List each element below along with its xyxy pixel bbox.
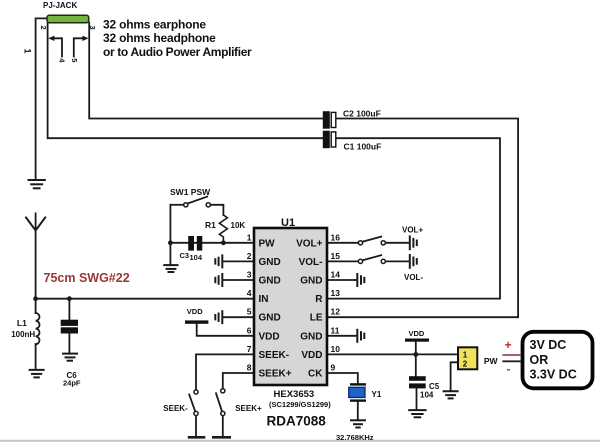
svg-text:PW: PW bbox=[484, 356, 499, 366]
svg-text:11: 11 bbox=[331, 325, 340, 335]
svg-text:VOL-: VOL- bbox=[404, 273, 423, 282]
svg-text:75cm SWG#22: 75cm SWG#22 bbox=[44, 271, 130, 285]
svg-text:24pF: 24pF bbox=[63, 379, 81, 388]
svg-text:1: 1 bbox=[23, 49, 33, 54]
svg-text:R: R bbox=[315, 294, 323, 305]
svg-text:VOL+: VOL+ bbox=[402, 225, 423, 234]
svg-text:32 ohms headphone: 32 ohms headphone bbox=[103, 31, 216, 45]
svg-text:GND: GND bbox=[259, 276, 281, 287]
svg-text:C3: C3 bbox=[180, 251, 190, 260]
svg-text:CK: CK bbox=[308, 369, 323, 380]
svg-text:L1: L1 bbox=[17, 318, 27, 328]
svg-text:13: 13 bbox=[331, 288, 341, 298]
svg-text:1: 1 bbox=[463, 350, 468, 359]
svg-text:1: 1 bbox=[247, 232, 252, 242]
svg-text:104: 104 bbox=[190, 253, 203, 262]
svg-text:2: 2 bbox=[247, 251, 252, 261]
svg-text:GND: GND bbox=[300, 276, 322, 287]
svg-text:IN: IN bbox=[259, 294, 269, 305]
svg-text:9: 9 bbox=[331, 363, 336, 373]
svg-text:-: - bbox=[507, 362, 511, 376]
svg-text:8: 8 bbox=[247, 363, 252, 373]
svg-text:10K: 10K bbox=[231, 221, 246, 230]
svg-text:SEEK+: SEEK+ bbox=[235, 404, 262, 413]
svg-text:104: 104 bbox=[420, 391, 434, 400]
svg-text:6: 6 bbox=[247, 325, 252, 335]
svg-text:32.768KHz: 32.768KHz bbox=[336, 433, 374, 442]
svg-text:10: 10 bbox=[331, 344, 341, 354]
svg-text:SEEK-: SEEK- bbox=[163, 404, 188, 413]
svg-text:7: 7 bbox=[247, 344, 252, 354]
svg-text:5: 5 bbox=[70, 58, 79, 62]
svg-text:VOL+: VOL+ bbox=[296, 238, 323, 249]
svg-text:VDD: VDD bbox=[259, 331, 280, 342]
svg-text:GND: GND bbox=[259, 313, 281, 324]
svg-text:VDD: VDD bbox=[187, 307, 203, 316]
svg-text:32 ohms earphone: 32 ohms earphone bbox=[103, 17, 206, 31]
svg-text:PW: PW bbox=[259, 238, 276, 249]
svg-text:HEX3653: HEX3653 bbox=[274, 389, 315, 400]
svg-text:+: + bbox=[505, 338, 512, 352]
svg-text:3V DC: 3V DC bbox=[530, 338, 567, 352]
svg-text:5: 5 bbox=[247, 307, 252, 317]
svg-text:SEEK+: SEEK+ bbox=[259, 369, 292, 380]
svg-text:C5: C5 bbox=[429, 382, 440, 391]
svg-text:2: 2 bbox=[39, 26, 48, 30]
svg-text:(SC1299/GS1299): (SC1299/GS1299) bbox=[269, 400, 331, 409]
svg-text:14: 14 bbox=[331, 270, 341, 280]
svg-text:3: 3 bbox=[88, 26, 97, 30]
svg-text:SEEK-: SEEK- bbox=[259, 350, 290, 361]
svg-text:4: 4 bbox=[247, 288, 252, 298]
svg-text:VDD: VDD bbox=[409, 329, 425, 338]
svg-text:12: 12 bbox=[331, 307, 341, 317]
svg-text:C1 100uF: C1 100uF bbox=[344, 142, 382, 152]
svg-text:VDD: VDD bbox=[301, 350, 322, 361]
svg-text:U1: U1 bbox=[281, 217, 295, 229]
svg-text:C2 100uF: C2 100uF bbox=[343, 108, 381, 118]
svg-text:16: 16 bbox=[331, 232, 341, 242]
svg-text:GND: GND bbox=[259, 257, 281, 268]
svg-text:2: 2 bbox=[463, 359, 468, 368]
svg-text:Y1: Y1 bbox=[372, 390, 382, 399]
svg-text:or to Audio Power Amplifier: or to Audio Power Amplifier bbox=[103, 45, 252, 59]
svg-text:R1: R1 bbox=[205, 220, 216, 230]
svg-text:LE: LE bbox=[310, 313, 323, 324]
svg-text:3.3V DC: 3.3V DC bbox=[530, 368, 577, 382]
svg-text:SW1 PSW: SW1 PSW bbox=[170, 187, 211, 197]
svg-text:3: 3 bbox=[247, 270, 252, 280]
svg-text:PJ-JACK: PJ-JACK bbox=[43, 1, 77, 10]
svg-text:OR: OR bbox=[530, 353, 549, 367]
svg-text:15: 15 bbox=[331, 251, 341, 261]
svg-text:GND: GND bbox=[300, 331, 322, 342]
svg-text:VOL-: VOL- bbox=[299, 257, 323, 268]
svg-text:RDA7088: RDA7088 bbox=[267, 414, 327, 429]
svg-text:100nH: 100nH bbox=[11, 330, 35, 339]
